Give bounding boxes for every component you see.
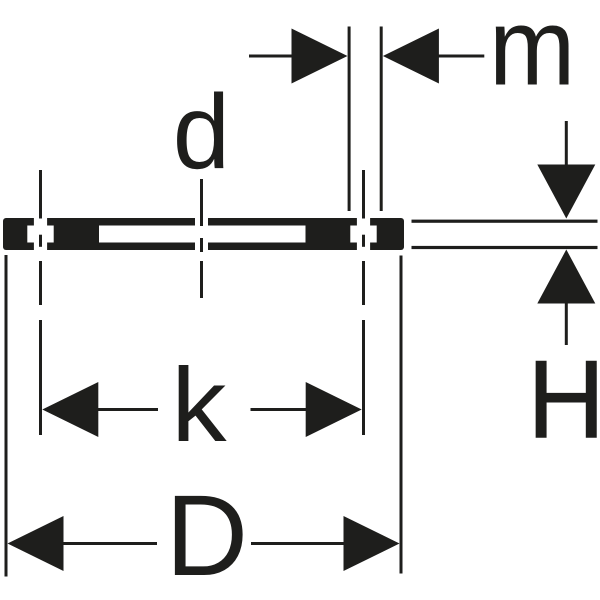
left bolt axis dash-dot line xyxy=(39,170,42,219)
right bolt hole wide cutout xyxy=(350,226,376,243)
m left dimension line xyxy=(249,55,292,58)
D right arrowhead xyxy=(344,516,400,571)
m right arrowhead xyxy=(383,29,439,84)
D left extension line xyxy=(5,255,8,577)
D right dimension line xyxy=(251,542,345,545)
right bolt axis dash-dot line xyxy=(362,170,365,219)
left k extension line xyxy=(39,320,42,435)
m left arrowhead xyxy=(292,29,348,84)
k left arrowhead xyxy=(42,382,98,437)
H up arrowhead xyxy=(537,250,595,304)
m left extension line xyxy=(348,27,351,212)
collar top edge line xyxy=(412,220,598,223)
right bolt hole bore cutout xyxy=(357,217,370,251)
H upper leader line xyxy=(565,121,568,165)
k right dimension line xyxy=(251,408,307,411)
centerline gap in bar xyxy=(195,217,208,251)
D left arrowhead xyxy=(8,516,64,571)
right k extension line xyxy=(362,320,365,435)
left bolt hole wide cutout xyxy=(27,226,53,243)
H lower leader line xyxy=(565,304,568,346)
center axis dash-dot line xyxy=(200,179,203,226)
inner slot cutout xyxy=(99,226,306,243)
k right arrowhead xyxy=(306,382,362,437)
flange cross-section bar xyxy=(3,218,404,250)
D left dimension line xyxy=(63,542,157,545)
svg-text:d: d xyxy=(173,72,230,191)
svg-text:m: m xyxy=(489,0,575,108)
svg-text:D: D xyxy=(166,472,249,600)
left bolt hole bore cutout xyxy=(34,217,47,251)
m right dimension line xyxy=(438,55,485,58)
m right extension line xyxy=(380,27,383,212)
H down arrowhead xyxy=(537,165,595,219)
k left dimension line xyxy=(98,408,159,411)
collar bottom edge line xyxy=(412,246,598,249)
svg-text:k: k xyxy=(171,346,227,464)
D right extension line xyxy=(400,256,403,574)
svg-text:H: H xyxy=(527,339,600,462)
